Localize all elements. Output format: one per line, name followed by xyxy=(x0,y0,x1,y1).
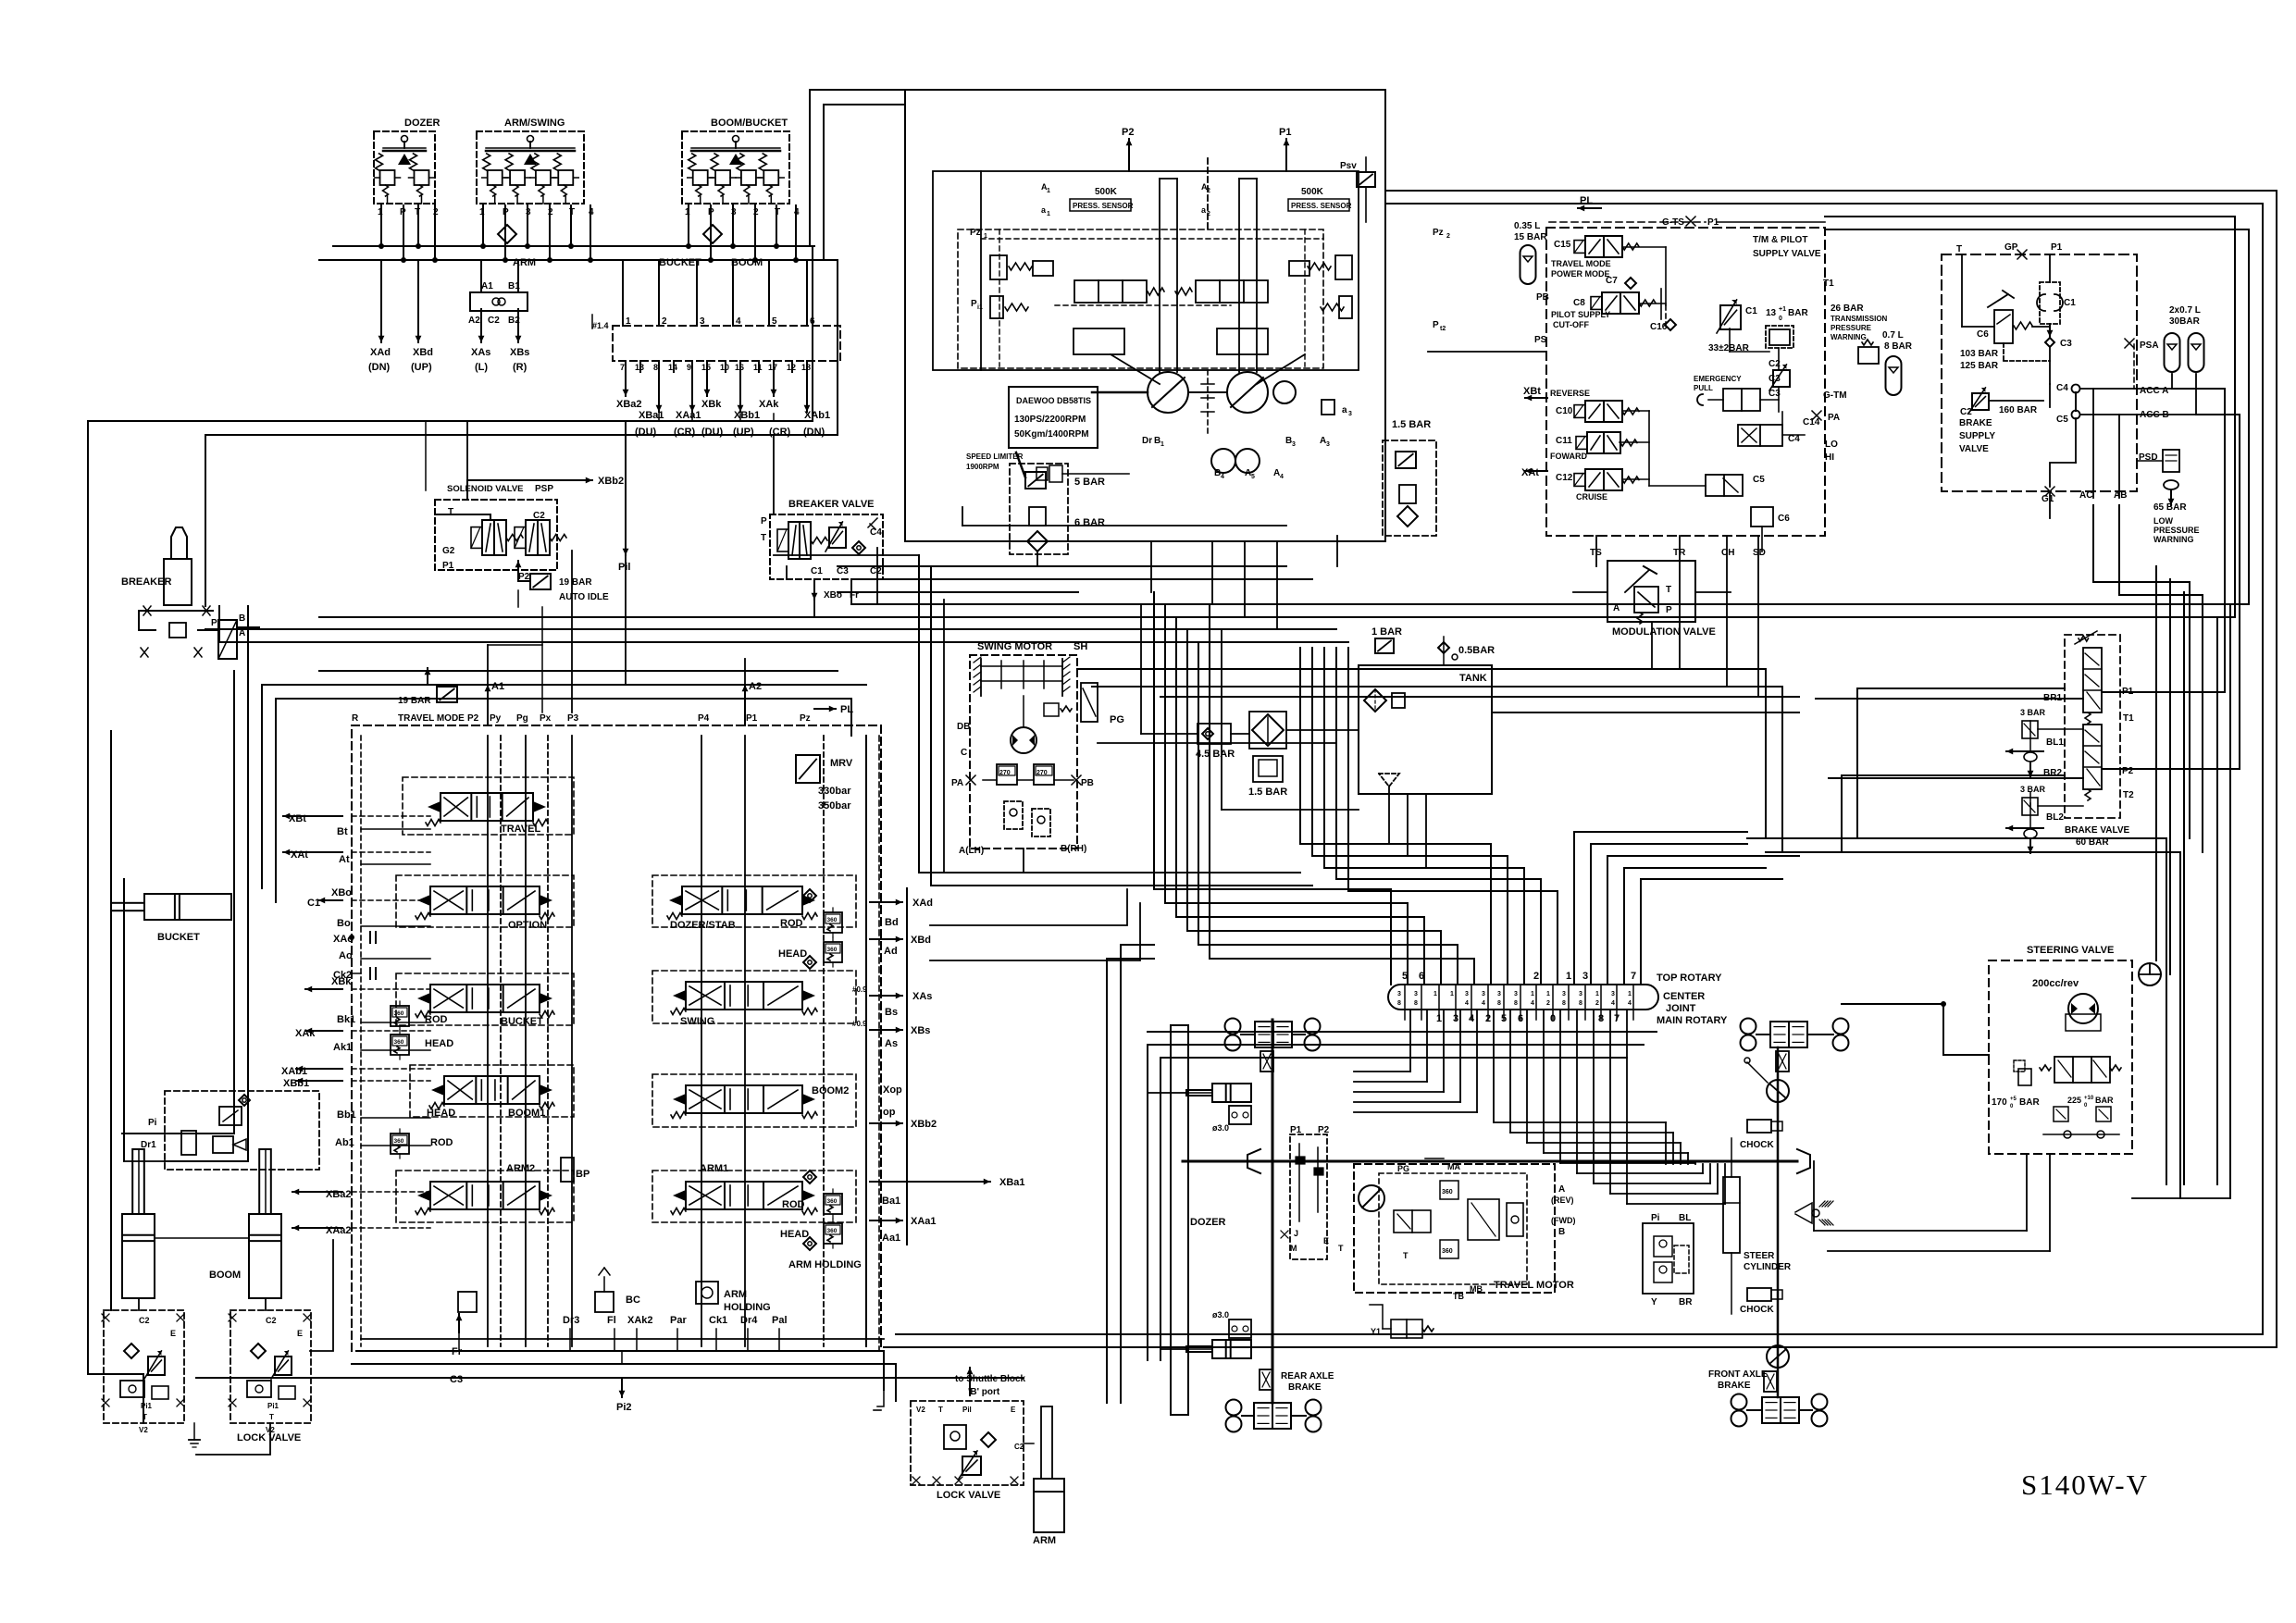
svg-text:2: 2 xyxy=(1446,233,1450,240)
svg-text:XAk: XAk xyxy=(759,399,779,410)
svg-text:PA: PA xyxy=(1828,413,1840,423)
svg-text:+10: +10 xyxy=(2084,1096,2094,1101)
svg-text:CRUISE: CRUISE xyxy=(1576,492,1607,502)
svg-text:MA: MA xyxy=(1447,1162,1460,1171)
svg-text:1: 1 xyxy=(626,316,631,327)
svg-text:130PS/2200RPM: 130PS/2200RPM xyxy=(1014,415,1086,425)
svg-text:P1: P1 xyxy=(2051,242,2063,253)
svg-text:7: 7 xyxy=(620,363,625,372)
svg-text:3: 3 xyxy=(1497,991,1501,997)
svg-text:500K: 500K xyxy=(1095,187,1118,197)
svg-text:BRAKE VALVE: BRAKE VALVE xyxy=(2065,825,2130,836)
svg-text:6 BAR: 6 BAR xyxy=(1074,517,1105,528)
svg-text:SD: SD xyxy=(1753,548,1766,558)
svg-text:360: 360 xyxy=(394,1039,404,1046)
svg-text:C3: C3 xyxy=(450,1374,463,1385)
svg-text:WARNING: WARNING xyxy=(2153,535,2194,544)
svg-text:1: 1 xyxy=(1047,211,1050,217)
svg-text:P1: P1 xyxy=(746,713,758,724)
svg-text:C: C xyxy=(961,748,967,758)
svg-text:50Kgm/1400RPM: 50Kgm/1400RPM xyxy=(1014,429,1089,440)
svg-text:T: T xyxy=(1956,244,1962,254)
svg-text:BUCKET: BUCKET xyxy=(157,932,200,943)
svg-text:(FWD): (FWD) xyxy=(1551,1216,1576,1225)
svg-text:E: E xyxy=(297,1329,303,1338)
svg-text:PSD: PSD xyxy=(2139,452,2158,463)
svg-text:B: B xyxy=(1558,1227,1565,1237)
svg-text:MODULATION VALVE: MODULATION VALVE xyxy=(1612,626,1716,638)
svg-text:3 BAR: 3 BAR xyxy=(2020,785,2046,794)
svg-text:XAk2: XAk2 xyxy=(627,1315,653,1326)
svg-text:(UP): (UP) xyxy=(411,362,432,373)
svg-text:Dr3: Dr3 xyxy=(563,1315,579,1326)
svg-text:AB: AB xyxy=(2114,490,2127,501)
svg-text:TRAVEL MODE: TRAVEL MODE xyxy=(398,713,465,724)
svg-text:P2: P2 xyxy=(2122,766,2134,776)
svg-text:T1: T1 xyxy=(2123,713,2134,724)
svg-text:1: 1 xyxy=(1531,991,1534,997)
svg-text:PA: PA xyxy=(951,778,963,788)
svg-text:XBa1: XBa1 xyxy=(639,410,664,421)
svg-text:SOLENOID VALVE: SOLENOID VALVE xyxy=(447,484,524,494)
svg-text:C5: C5 xyxy=(1753,475,1765,485)
svg-text:REAR AXLE: REAR AXLE xyxy=(1281,1371,1334,1381)
svg-text:BOOM: BOOM xyxy=(209,1270,241,1281)
svg-text:3: 3 xyxy=(700,316,705,327)
svg-text:XBk: XBk xyxy=(331,976,352,987)
svg-text:Bk1: Bk1 xyxy=(337,1014,355,1025)
svg-text:BOOM: BOOM xyxy=(731,257,763,268)
svg-text:BC: BC xyxy=(626,1295,640,1306)
svg-text:C14: C14 xyxy=(1803,417,1820,427)
svg-text:13: 13 xyxy=(635,363,644,372)
svg-text:Px: Px xyxy=(540,713,552,724)
svg-text:P1: P1 xyxy=(2122,687,2134,697)
svg-text:DB: DB xyxy=(957,722,970,732)
svg-text:Pi1: Pi1 xyxy=(267,1402,279,1410)
svg-text:+5: +5 xyxy=(2010,1096,2017,1102)
svg-text:17: 17 xyxy=(768,363,777,372)
svg-text:CHOCK: CHOCK xyxy=(1740,1305,1774,1315)
svg-text:LO: LO xyxy=(1825,440,1838,450)
svg-text:XAs: XAs xyxy=(471,347,490,358)
svg-text:C6: C6 xyxy=(1778,514,1790,524)
svg-text:BR2: BR2 xyxy=(2043,768,2062,778)
svg-text:4.5 BAR: 4.5 BAR xyxy=(1196,749,1235,760)
svg-text:4: 4 xyxy=(1628,1000,1632,1007)
svg-text:PSA: PSA xyxy=(2140,341,2159,351)
svg-text:Psv: Psv xyxy=(1340,161,1357,171)
svg-text:270: 270 xyxy=(1036,770,1048,776)
svg-text:2: 2 xyxy=(662,316,667,327)
svg-text:C1: C1 xyxy=(307,898,320,909)
svg-text:Ba1: Ba1 xyxy=(882,1196,900,1207)
svg-text:T: T xyxy=(269,1413,274,1421)
svg-text:Pi2: Pi2 xyxy=(616,1402,632,1413)
svg-text:BL1: BL1 xyxy=(2046,737,2064,748)
svg-text:XAt: XAt xyxy=(1521,467,1539,478)
svg-text:8: 8 xyxy=(1414,1000,1418,1007)
svg-text:T: T xyxy=(1403,1251,1409,1260)
svg-text:C6: C6 xyxy=(1977,329,1989,340)
svg-text:0.7 L: 0.7 L xyxy=(1882,330,1904,341)
svg-text:XAa1: XAa1 xyxy=(676,410,701,421)
svg-text:XAa2: XAa2 xyxy=(326,1225,352,1236)
svg-text:C2: C2 xyxy=(1960,407,1972,417)
svg-text:AC: AC xyxy=(2079,490,2092,501)
svg-text:PSP: PSP xyxy=(535,484,553,494)
svg-text:Dr4: Dr4 xyxy=(740,1315,758,1326)
svg-text:BUCKET: BUCKET xyxy=(659,257,701,268)
svg-text:BAR: BAR xyxy=(2019,1097,2040,1108)
svg-text:Pi: Pi xyxy=(148,1118,157,1128)
svg-text:ARM/SWING: ARM/SWING xyxy=(504,118,565,129)
svg-text:3: 3 xyxy=(1582,971,1588,982)
svg-text:ARM: ARM xyxy=(1033,1535,1056,1546)
svg-text:360: 360 xyxy=(1442,1248,1453,1255)
svg-text:C4: C4 xyxy=(2056,383,2068,393)
svg-text:3: 3 xyxy=(1514,991,1518,997)
svg-text:POWER MODE: POWER MODE xyxy=(1551,269,1610,279)
svg-text:BOOM1: BOOM1 xyxy=(508,1108,545,1119)
svg-text:FRONT AXLE: FRONT AXLE xyxy=(1708,1369,1768,1380)
svg-text:ARM HOLDING: ARM HOLDING xyxy=(788,1259,862,1270)
svg-text:PRESS. SENSOR: PRESS. SENSOR xyxy=(1073,202,1134,210)
svg-text:C2: C2 xyxy=(488,316,500,326)
svg-text:HOLDING: HOLDING xyxy=(724,1302,771,1313)
svg-text:LOCK VALVE: LOCK VALVE xyxy=(937,1490,1000,1501)
svg-text:P3: P3 xyxy=(567,713,579,724)
svg-text:7: 7 xyxy=(1631,971,1636,982)
svg-text:HEAD: HEAD xyxy=(425,1038,453,1049)
svg-text:XBt: XBt xyxy=(1523,386,1541,397)
svg-text:0.5BAR: 0.5BAR xyxy=(1458,645,1495,656)
svg-text:XAs: XAs xyxy=(912,991,932,1002)
svg-text:270: 270 xyxy=(999,770,1011,776)
svg-text:'B' port: 'B' port xyxy=(968,1387,1000,1397)
svg-text:Ad: Ad xyxy=(884,946,898,957)
svg-text:Pi: Pi xyxy=(1651,1213,1660,1223)
svg-text:t2: t2 xyxy=(1440,326,1446,332)
svg-text:Pg: Pg xyxy=(516,713,528,724)
svg-text:At: At xyxy=(339,854,350,865)
svg-text:Pz: Pz xyxy=(1433,228,1444,238)
svg-text:DAEWOO DB58TIS: DAEWOO DB58TIS xyxy=(1016,396,1091,405)
svg-text:to Shuttle Block: to Shuttle Block xyxy=(955,1374,1026,1384)
svg-text:XBa2: XBa2 xyxy=(616,399,642,410)
svg-text:XBs: XBs xyxy=(510,347,529,358)
svg-text:ARM: ARM xyxy=(513,257,536,268)
svg-text:JOINT: JOINT xyxy=(1666,1003,1696,1014)
svg-text:Xop: Xop xyxy=(883,1084,902,1096)
svg-text:Bd: Bd xyxy=(885,917,899,928)
svg-text:AUTO IDLE: AUTO IDLE xyxy=(559,592,609,602)
svg-text:BRAKE: BRAKE xyxy=(1288,1382,1322,1393)
svg-text:0: 0 xyxy=(1779,316,1782,322)
svg-text:14: 14 xyxy=(668,363,677,372)
svg-text:SWING: SWING xyxy=(680,1016,714,1027)
svg-text:ACC A: ACC A xyxy=(2140,386,2168,396)
svg-text:P: P xyxy=(971,299,977,309)
svg-text:XBo: XBo xyxy=(331,887,352,898)
svg-text:(DN): (DN) xyxy=(803,427,825,438)
svg-text:TRANSMISSION: TRANSMISSION xyxy=(1831,315,1888,323)
svg-text:9: 9 xyxy=(687,363,691,372)
svg-text:8: 8 xyxy=(1562,1000,1566,1007)
svg-text:XBt: XBt xyxy=(289,813,306,824)
svg-text:(DU): (DU) xyxy=(701,427,724,438)
svg-text:+1: +1 xyxy=(1779,306,1786,313)
svg-text:Bb1: Bb1 xyxy=(337,1109,356,1121)
svg-text:TANK: TANK xyxy=(1459,673,1487,684)
svg-text:65 BAR: 65 BAR xyxy=(2153,502,2187,513)
svg-text:VALVE: VALVE xyxy=(1959,444,1989,454)
svg-text:T: T xyxy=(938,1406,943,1414)
svg-text:XBs: XBs xyxy=(911,1025,930,1036)
svg-text:Pz: Pz xyxy=(970,228,981,238)
svg-text:Pil: Pil xyxy=(618,562,630,573)
svg-text:170: 170 xyxy=(1992,1097,2007,1108)
svg-text:CENTER: CENTER xyxy=(1663,991,1705,1002)
svg-text:a: a xyxy=(1342,405,1347,415)
svg-text:B: B xyxy=(239,613,245,624)
svg-text:ø3.0: ø3.0 xyxy=(1212,1123,1229,1133)
svg-text:P1: P1 xyxy=(1279,127,1291,138)
svg-text:WARNING: WARNING xyxy=(1831,333,1867,341)
svg-text:STEERING VALVE: STEERING VALVE xyxy=(2027,945,2114,956)
svg-text:R: R xyxy=(352,713,359,724)
svg-text:3: 3 xyxy=(1292,441,1296,448)
svg-text:#0.9: #0.9 xyxy=(852,1020,867,1028)
svg-text:XAa1: XAa1 xyxy=(911,1216,937,1227)
svg-text:125 BAR: 125 BAR xyxy=(1960,361,1999,371)
svg-text:SUPPLY: SUPPLY xyxy=(1959,431,1995,441)
svg-text:J: J xyxy=(1294,1229,1298,1238)
svg-text:C3: C3 xyxy=(837,566,849,576)
svg-text:360: 360 xyxy=(827,947,838,953)
svg-text:4: 4 xyxy=(1482,1000,1485,1007)
svg-text:360: 360 xyxy=(827,1198,838,1205)
svg-text:CYLINDER: CYLINDER xyxy=(1744,1262,1792,1272)
svg-text:A1: A1 xyxy=(491,681,504,692)
svg-text:STEER: STEER xyxy=(1744,1251,1775,1261)
svg-text:PG: PG xyxy=(1110,714,1124,725)
svg-text:Bo: Bo xyxy=(337,918,351,929)
svg-text:360: 360 xyxy=(394,1138,404,1145)
svg-text:8: 8 xyxy=(1497,1000,1501,1007)
svg-text:11: 11 xyxy=(753,363,763,372)
svg-text:CUT-OFF: CUT-OFF xyxy=(1553,320,1589,329)
svg-text:Ck1: Ck1 xyxy=(709,1315,727,1326)
svg-text:BAR: BAR xyxy=(1788,308,1808,318)
svg-text:1900RPM: 1900RPM xyxy=(966,463,999,471)
svg-text:Py: Py xyxy=(490,713,502,724)
svg-text:P1: P1 xyxy=(442,561,454,571)
svg-text:BOOM/BUCKET: BOOM/BUCKET xyxy=(711,118,788,129)
svg-text:1.5 BAR: 1.5 BAR xyxy=(1392,419,1431,430)
svg-text:E: E xyxy=(1011,1406,1016,1414)
svg-text:Pil: Pil xyxy=(962,1406,972,1414)
svg-text:BOOM2: BOOM2 xyxy=(812,1085,849,1096)
svg-text:PRESS. SENSOR: PRESS. SENSOR xyxy=(1291,202,1352,210)
svg-text:T: T xyxy=(569,207,575,217)
svg-text:i1: i1 xyxy=(977,304,983,311)
svg-text:8: 8 xyxy=(653,363,658,372)
svg-text:C8: C8 xyxy=(1573,298,1585,308)
svg-text:A(LH): A(LH) xyxy=(959,846,984,856)
svg-text:BRAKE: BRAKE xyxy=(1718,1381,1751,1391)
svg-text:15: 15 xyxy=(701,363,711,372)
svg-text:26 BAR: 26 BAR xyxy=(1831,304,1864,314)
svg-text:ROD: ROD xyxy=(780,918,803,929)
svg-text:E: E xyxy=(170,1329,176,1338)
svg-text:PB: PB xyxy=(1536,292,1549,303)
svg-text:BL: BL xyxy=(1679,1213,1691,1223)
svg-text:8 BAR: 8 BAR xyxy=(1884,341,1913,352)
svg-text:XBb2: XBb2 xyxy=(911,1119,937,1130)
svg-text:3: 3 xyxy=(1562,991,1566,997)
svg-text:GP: GP xyxy=(2004,242,2018,253)
svg-text:225: 225 xyxy=(2067,1096,2081,1105)
svg-text:T2: T2 xyxy=(2123,790,2134,800)
svg-text:REVERSE: REVERSE xyxy=(1550,389,1590,398)
svg-text:TRAVEL MOTOR: TRAVEL MOTOR xyxy=(1494,1280,1574,1291)
svg-text:#0.9: #0.9 xyxy=(852,985,867,994)
svg-text:1: 1 xyxy=(1160,441,1164,448)
svg-text:60 BAR: 60 BAR xyxy=(2076,837,2109,848)
svg-text:XBa1: XBa1 xyxy=(999,1177,1025,1188)
svg-text:C2: C2 xyxy=(139,1316,150,1325)
svg-text:2: 2 xyxy=(1533,971,1539,982)
svg-text:3: 3 xyxy=(1611,991,1615,997)
svg-text:Par: Par xyxy=(670,1315,687,1326)
svg-text:TRAVEL MODE: TRAVEL MODE xyxy=(1551,259,1611,268)
svg-text:360: 360 xyxy=(827,917,838,923)
svg-text:T/M & PILOT: T/M & PILOT xyxy=(1753,235,1807,245)
svg-text:XAd: XAd xyxy=(912,898,933,909)
svg-text:ø3.0: ø3.0 xyxy=(1212,1310,1229,1319)
svg-text:Bt: Bt xyxy=(337,826,348,837)
svg-text:BP: BP xyxy=(576,1169,590,1180)
svg-text:XBd: XBd xyxy=(413,347,433,358)
svg-text:C2: C2 xyxy=(266,1316,277,1325)
svg-text:1.5 BAR: 1.5 BAR xyxy=(1248,787,1287,798)
svg-text:ROD: ROD xyxy=(425,1014,448,1025)
svg-text:1 BAR: 1 BAR xyxy=(1371,626,1402,638)
svg-text:3: 3 xyxy=(1348,411,1352,417)
svg-text:op: op xyxy=(883,1107,896,1118)
svg-text:Ao: Ao xyxy=(339,950,353,961)
svg-text:(DU): (DU) xyxy=(635,427,657,438)
svg-text:C15: C15 xyxy=(1554,240,1571,250)
svg-text:160 BAR: 160 BAR xyxy=(1999,405,2038,415)
svg-text:PRESSURE: PRESSURE xyxy=(1831,324,1872,332)
svg-text:XAk: XAk xyxy=(295,1028,316,1039)
svg-text:FOWARD: FOWARD xyxy=(1550,452,1587,461)
svg-text:V2: V2 xyxy=(916,1406,925,1414)
svg-text:P2: P2 xyxy=(467,713,479,724)
svg-text:Pz: Pz xyxy=(800,713,811,724)
svg-text:S140W-V: S140W-V xyxy=(2021,1468,2149,1501)
svg-text:PULL: PULL xyxy=(1694,384,1713,392)
svg-text:500K: 500K xyxy=(1301,187,1324,197)
svg-text:5: 5 xyxy=(1251,474,1255,480)
svg-text:BRAKE: BRAKE xyxy=(1959,418,1992,428)
svg-text:3: 3 xyxy=(1326,441,1330,448)
svg-text:HEAD: HEAD xyxy=(780,1229,809,1240)
svg-text:SUPPLY VALVE: SUPPLY VALVE xyxy=(1753,249,1821,259)
svg-text:M: M xyxy=(1290,1244,1297,1253)
svg-text:A2: A2 xyxy=(749,681,762,692)
svg-text:Ak1: Ak1 xyxy=(333,1042,352,1053)
svg-text:PL: PL xyxy=(1580,195,1593,206)
svg-text:T: T xyxy=(448,507,453,517)
svg-text:XBb2: XBb2 xyxy=(598,476,624,487)
svg-text:(L): (L) xyxy=(475,362,488,373)
svg-text:1: 1 xyxy=(1546,991,1550,997)
svg-text:2: 2 xyxy=(1595,1000,1599,1007)
svg-text:(CR): (CR) xyxy=(769,427,791,438)
svg-text:8: 8 xyxy=(1514,1000,1518,1007)
svg-text:4: 4 xyxy=(1465,1000,1469,1007)
svg-text:4: 4 xyxy=(1531,1000,1534,1007)
svg-text:C10: C10 xyxy=(1556,406,1573,416)
svg-text:C3: C3 xyxy=(1769,374,1781,384)
svg-text:SPEED LIMITER: SPEED LIMITER xyxy=(966,452,1024,461)
svg-text:C1: C1 xyxy=(1745,306,1757,316)
svg-text:5: 5 xyxy=(772,316,777,327)
svg-text:XAt: XAt xyxy=(291,849,308,861)
svg-text:LOW: LOW xyxy=(2153,516,2173,526)
svg-text:TRAVEL: TRAVEL xyxy=(501,824,540,835)
svg-text:OPTION: OPTION xyxy=(508,920,547,931)
svg-text:C3: C3 xyxy=(2060,339,2072,349)
svg-text:BR: BR xyxy=(1679,1297,1693,1307)
svg-text:XBb1: XBb1 xyxy=(283,1078,309,1089)
svg-text:12: 12 xyxy=(787,363,796,372)
svg-text:P2: P2 xyxy=(1122,127,1134,138)
svg-text:HEAD: HEAD xyxy=(778,948,807,960)
svg-text:5 BAR: 5 BAR xyxy=(1074,477,1105,488)
svg-text:XAd: XAd xyxy=(370,347,391,358)
svg-text:XBb1: XBb1 xyxy=(734,410,760,421)
svg-text:18: 18 xyxy=(801,363,811,372)
svg-text:G1: G1 xyxy=(2042,494,2054,504)
svg-text:BL2: BL2 xyxy=(2046,812,2064,823)
svg-text:Dr: Dr xyxy=(1142,436,1152,446)
svg-text:4: 4 xyxy=(736,316,741,327)
svg-text:BAR: BAR xyxy=(2095,1096,2114,1105)
svg-text:P: P xyxy=(1433,320,1439,330)
svg-text:As: As xyxy=(885,1038,898,1049)
svg-text:103 BAR: 103 BAR xyxy=(1960,349,1999,359)
svg-text:19 BAR: 19 BAR xyxy=(398,696,431,706)
svg-text:3: 3 xyxy=(1465,991,1469,997)
svg-text:PRESSURE: PRESSURE xyxy=(2153,526,2200,535)
svg-text:1: 1 xyxy=(1047,188,1050,194)
svg-text:A1: A1 xyxy=(481,281,493,291)
svg-text:A2: A2 xyxy=(468,316,480,326)
svg-text:Pi1: Pi1 xyxy=(141,1402,153,1410)
svg-text:0.35 L: 0.35 L xyxy=(1514,221,1540,231)
svg-text:HEAD: HEAD xyxy=(427,1108,455,1119)
svg-text:19 BAR: 19 BAR xyxy=(559,577,592,588)
svg-text:TOP ROTARY: TOP ROTARY xyxy=(1657,973,1722,984)
svg-text:E: E xyxy=(1323,1236,1329,1245)
svg-text:P4: P4 xyxy=(698,713,710,724)
svg-text:C12: C12 xyxy=(1556,473,1573,483)
svg-text:Ab1: Ab1 xyxy=(335,1137,354,1148)
